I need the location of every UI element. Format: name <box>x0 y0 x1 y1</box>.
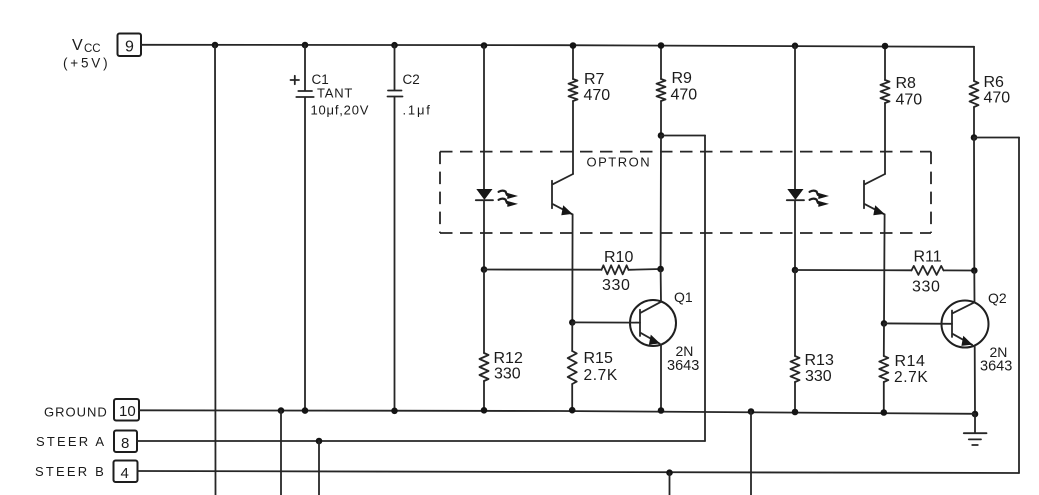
wire: LED1 cathode down to node <box>483 200 485 269</box>
wire: R6 down to steer-B branch node <box>973 107 975 138</box>
node: STEER A / bottom stub <box>316 438 323 445</box>
wire: R13 to ground rail <box>794 382 796 412</box>
wire: R11 left lead <box>795 269 912 271</box>
svg-text:3643: 3643 <box>667 358 699 374</box>
node: R6 / steer-B branch junction <box>971 134 978 141</box>
wire: branch right from R9 node <box>661 135 705 137</box>
resistor R6 <box>970 81 979 107</box>
node: Vcc / R7 junction <box>570 42 577 49</box>
wire: branch right from R6 node <box>974 137 1019 139</box>
svg-text:2.7K: 2.7K <box>894 369 928 386</box>
node: ground / C1 <box>302 407 309 414</box>
wire: ground rail <box>139 410 975 414</box>
svg-text:330: 330 <box>805 368 832 385</box>
node: ground / R13 <box>792 409 799 416</box>
svg-text:R14: R14 <box>895 353 926 370</box>
svg-text:10: 10 <box>119 403 136 420</box>
svg-text:470: 470 <box>984 90 1011 107</box>
wire: STEER B row <box>138 471 1020 473</box>
svg-text:R15: R15 <box>584 350 613 367</box>
LED1 (optocoupler diode, left) <box>476 190 493 201</box>
wire: LED2 anode lead <box>794 46 796 190</box>
wire: R10 right lead <box>629 268 661 271</box>
LED2 light emission arrows <box>810 191 829 207</box>
wire: LED1 anode lead <box>483 46 485 190</box>
node: Vcc / R9 junction <box>658 42 665 49</box>
phototransistor PT1 (left optocoupler) <box>552 174 573 215</box>
node: Vcc / LED1 anode junction <box>481 42 488 49</box>
resistor R15 <box>568 351 577 384</box>
wire: C2 top lead <box>394 45 396 90</box>
wire: node to Q2 collector <box>973 271 975 303</box>
C1 polarity plus sign <box>291 76 300 84</box>
transistor Q2 body circle <box>942 301 989 348</box>
wire: R8 to phototransistor PT2 collector <box>884 103 886 174</box>
resistor R11 <box>912 266 944 275</box>
wire: R14 to ground rail <box>883 382 885 413</box>
wire: bottom stub from ground rail at x281 <box>280 411 282 495</box>
phototransistor PT2 (right optocoupler) <box>864 174 885 215</box>
wire: Q2 emitter down to ground symbol node <box>974 346 976 414</box>
svg-text:.1μf: .1μf <box>403 103 432 118</box>
wire: R12 to ground rail <box>483 381 485 410</box>
svg-text:2.7K: 2.7K <box>584 367 618 384</box>
net label Vcc <box>63 37 110 71</box>
wire: Q1 emitter to ground rail <box>660 345 662 411</box>
LED1 light emission arrows <box>499 191 518 207</box>
svg-text:STEER A: STEER A <box>36 434 106 449</box>
Q1 base bar <box>639 310 641 336</box>
wire: Q2 base lead <box>884 322 952 324</box>
wire: vertical branch down to STEER B row <box>1018 138 1020 474</box>
wire: Vcc top rail <box>141 45 974 47</box>
node: STEER B / bottom stub <box>666 469 673 476</box>
Q1 collector stroke <box>641 302 662 313</box>
svg-text:R9: R9 <box>672 70 693 87</box>
Q2 base bar <box>951 311 953 338</box>
node: PT2 emitter / R14 / Q2 base junction <box>881 320 888 327</box>
Q2 emitter stroke with arrow <box>953 334 973 346</box>
svg-text:R7: R7 <box>584 71 605 88</box>
node: Vcc / C1 junction <box>302 42 309 49</box>
node: LED1 / R10 / R12 junction <box>481 266 488 273</box>
wire: R10 left lead <box>484 269 602 271</box>
node: Q2 emitter / ground rail junction <box>972 411 979 418</box>
wire: R7 to phototransistor PT1 collector <box>572 101 574 174</box>
node: R10 / Q1 collector junction <box>657 266 664 273</box>
node: LED2 / R11 / R13 junction <box>792 267 799 274</box>
wire: node to R14 <box>883 323 885 356</box>
svg-text:Q1: Q1 <box>674 289 693 305</box>
resistor R12 <box>480 353 489 381</box>
svg-text:9: 9 <box>125 39 134 56</box>
svg-text:Q2: Q2 <box>988 290 1007 306</box>
ground symbol (chassis ground at Q2 emitter) <box>964 414 987 445</box>
capacitor C1 plates <box>296 91 313 97</box>
wire: PT1 emitter down to Q1 base node <box>571 214 573 322</box>
node: ground / C2 <box>391 408 398 415</box>
wire: R6 top lead <box>973 47 975 81</box>
wire: node to R13 <box>794 270 796 356</box>
node: ground / bottom stub 2 <box>748 408 755 415</box>
wire: column A vertical (Vcc down past all rows to bottom edge) <box>214 45 217 495</box>
node: Vcc / LED2 anode junction <box>792 43 799 50</box>
svg-text:STEER B: STEER B <box>35 464 106 479</box>
svg-text:330: 330 <box>494 366 521 383</box>
node: ground / bottom stub 1 <box>278 407 285 414</box>
svg-text:R8: R8 <box>896 75 917 92</box>
terminal box pin 8 (STEER A) <box>114 431 137 453</box>
Q1 emitter stroke with arrow <box>641 333 661 345</box>
svg-text:R12: R12 <box>494 350 523 367</box>
wire: R9 down to steer-A branch node <box>660 101 662 136</box>
terminal box pin 9 (Vcc) <box>118 34 142 57</box>
resistor R8 <box>881 80 890 103</box>
svg-text:470: 470 <box>671 87 698 104</box>
wire: R11 right lead <box>944 269 975 271</box>
svg-text:330: 330 <box>912 279 941 296</box>
svg-text:TANT: TANT <box>317 86 353 101</box>
wire: bottom stub from STEER B at x669 <box>669 473 671 495</box>
wire: R9 node down to R10 node <box>660 136 662 270</box>
wire: LED2 cathode down to node <box>794 200 796 270</box>
node: ground / R15 <box>569 407 576 414</box>
svg-text:V: V <box>72 37 83 54</box>
terminal box pin 4 (STEER B) <box>114 461 138 483</box>
wire: STEER A row <box>137 440 705 442</box>
svg-text:10μf,20V: 10μf,20V <box>311 103 370 118</box>
node: ground / R12 <box>481 407 488 414</box>
svg-text:R6: R6 <box>984 74 1005 91</box>
node: Vcc / R8 junction <box>882 43 889 50</box>
resistor R9 <box>657 79 666 101</box>
node: R11 / Q2 collector junction <box>971 267 978 274</box>
wire: C1 bottom lead to ground rail <box>304 98 306 411</box>
svg-text:OPTRON: OPTRON <box>587 155 652 170</box>
wire: R7 top lead <box>572 46 574 80</box>
node: Vcc / C2 junction <box>391 42 398 49</box>
node: Vcc / column A junction <box>212 42 219 49</box>
wire: R9 top lead <box>660 46 662 80</box>
node: PT1 emitter / R15 / Q1 base junction <box>569 319 576 326</box>
wire: R6 node down to R11 node <box>973 138 975 271</box>
transistor Q1 body circle <box>630 300 676 346</box>
capacitor C2 plates <box>388 91 403 97</box>
terminal box pin 10 (GROUND) <box>114 399 139 421</box>
wire: node to R15 <box>571 322 573 351</box>
wire: C2 bottom lead to ground rail <box>394 97 396 411</box>
svg-text:R10: R10 <box>604 249 633 266</box>
wire: vertical branch down to STEER A row <box>704 136 706 442</box>
wire: C1 top lead <box>304 45 306 91</box>
resistor R13 <box>791 356 800 382</box>
svg-text:470: 470 <box>896 92 923 109</box>
wire: R15 to ground rail <box>571 384 573 410</box>
wire: node to Q1 collector <box>660 269 662 302</box>
node: R9 / steer-A branch junction <box>658 132 665 139</box>
node: ground / R14 <box>881 409 888 416</box>
svg-text:GROUND: GROUND <box>44 405 108 420</box>
svg-text:4: 4 <box>121 465 129 482</box>
resistor R7 <box>569 79 578 101</box>
Q2 collector stroke <box>953 302 975 313</box>
node: ground / Q1 emitter <box>658 407 665 414</box>
svg-text:CC: CC <box>84 43 101 55</box>
svg-text:3643: 3643 <box>980 359 1012 375</box>
wire: node to R12 <box>483 270 485 354</box>
resistor R14 <box>879 356 888 382</box>
LED2 (optocoupler diode, right) <box>787 190 804 201</box>
svg-text:(+5V): (+5V) <box>63 56 110 71</box>
svg-text:8: 8 <box>121 435 129 452</box>
OPTRON dashed enclosure <box>440 152 931 233</box>
wire: PT2 emitter down to Q2 base node <box>883 214 886 323</box>
svg-text:470: 470 <box>584 87 611 104</box>
svg-text:330: 330 <box>602 277 631 294</box>
wire: bottom stub from STEER A at x319 <box>318 441 320 495</box>
svg-text:R11: R11 <box>914 249 942 266</box>
wire: R8 top lead <box>884 46 886 80</box>
svg-text:C2: C2 <box>403 72 420 87</box>
wire: bottom stub from ground rail at x751 <box>750 412 752 495</box>
wire: Q1 base lead <box>572 321 640 323</box>
resistor R10 <box>602 265 629 274</box>
svg-text:2N: 2N <box>676 343 694 359</box>
svg-text:R13: R13 <box>805 352 834 369</box>
